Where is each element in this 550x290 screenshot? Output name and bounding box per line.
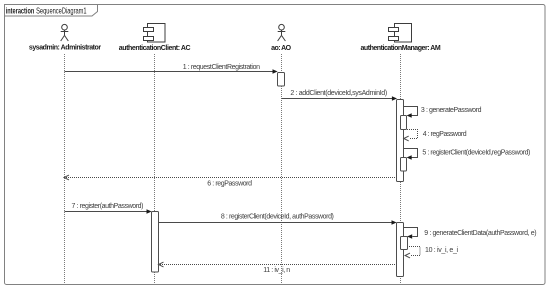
svg-text:7 : register(authPassword): 7 : register(authPassword) [72,203,144,210]
svg-text:authenticationClient: AC: authenticationClient: AC [119,45,191,52]
svg-text:4 : regPassword: 4 : regPassword [423,131,467,138]
svg-text:9 : generateClientData(authPas: 9 : generateClientData(authPassword, e) [424,230,536,237]
svg-text:3 : generatePassword: 3 : generatePassword [421,107,482,114]
svg-text:interaction: interaction [6,7,35,16]
svg-text:SequenceDiagram1: SequenceDiagram1 [36,7,87,16]
svg-text:1 : requestClientRegistration: 1 : requestClientRegistration [183,64,260,71]
svg-text:5 : registerClient(deviceId,re: 5 : registerClient(deviceId,regPassword) [422,149,530,156]
svg-text:ao: AO: ao: AO [271,45,292,52]
svg-text:6 : regPassword: 6 : regPassword [207,180,252,187]
svg-text:2 : addClient(deviceId,sysAdmi: 2 : addClient(deviceId,sysAdminId) [290,90,387,97]
svg-text:11 : iv_i, n: 11 : iv_i, n [263,267,290,274]
svg-text:8 : registerClient(deviceId, a: 8 : registerClient(deviceId, authPasswor… [221,214,334,221]
svg-text:10 : iv_i, e_i: 10 : iv_i, e_i [425,247,459,254]
svg-text:authenticationManager: AM: authenticationManager: AM [361,45,441,52]
svg-text:sysadmin: Administrator: sysadmin: Administrator [29,45,101,52]
